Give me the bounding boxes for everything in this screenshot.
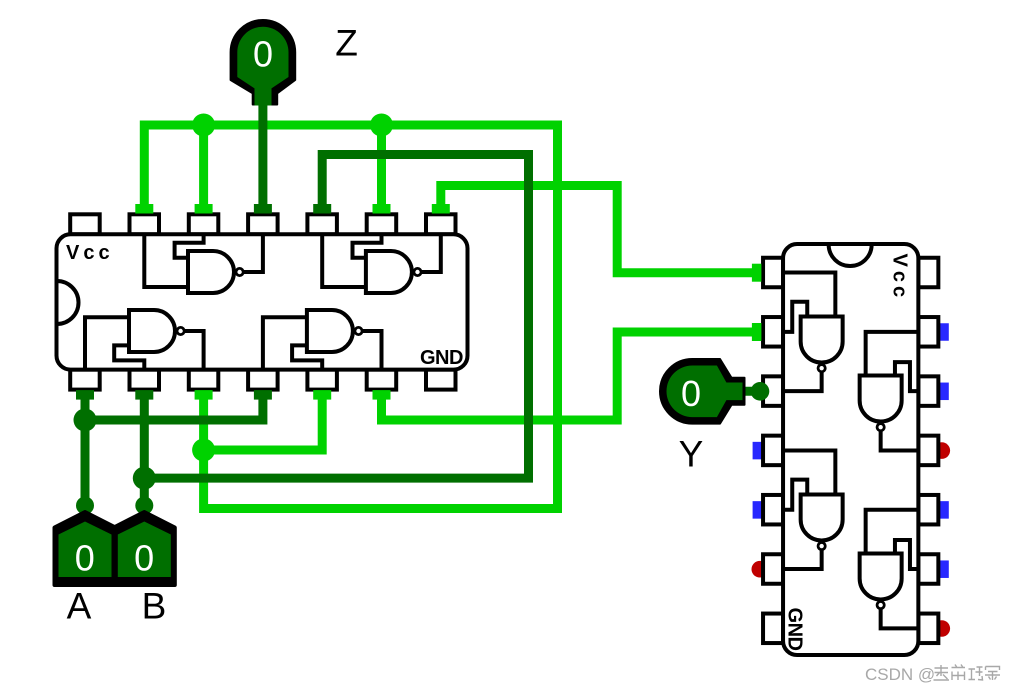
junction net1 at pin9 column: [370, 114, 393, 137]
svg-text:0: 0: [253, 33, 273, 74]
gate U1B input wire from pin 5: [292, 345, 322, 369]
junction net1 at pin3 column: [192, 439, 215, 462]
gate U1C NAND body: [366, 251, 412, 293]
gate U1A bubble: [177, 327, 184, 334]
U2 port R4 error indicator: [934, 442, 951, 459]
junction net B: [133, 467, 156, 490]
IC U2 7400 quad NAND (vertical DIP-14, rotated copy): [763, 244, 938, 655]
gate U1C bubble: [414, 268, 421, 275]
wire net1 branch to pin 5: [204, 392, 323, 450]
input A shield inner fill: [59, 522, 112, 578]
gate U1A NAND body: [129, 310, 175, 352]
stub pin 10: [313, 204, 331, 214]
input B shield: [114, 512, 175, 585]
U1 pin 6 box: [367, 370, 397, 390]
gate U1A input wire from pin 1: [85, 317, 129, 369]
junction net1 at pin12 column: [192, 114, 215, 137]
wire net B to pin 2: [140, 392, 149, 506]
U1 pin 13 box: [130, 214, 160, 234]
stub pin 2: [135, 390, 153, 400]
node dot at input A apex: [76, 497, 94, 515]
U2 port R3 floating indicator: [940, 383, 949, 401]
gate U1A output wire to pin 3: [184, 331, 204, 370]
U1 pin 5 box: [307, 370, 337, 390]
stub pin 4: [254, 390, 272, 400]
U1 pin 4 box: [248, 370, 278, 390]
U2 port R7 error indicator: [934, 620, 951, 637]
stub pin 8: [432, 204, 450, 214]
U1 notch: [57, 281, 79, 324]
U1 body: [57, 234, 468, 369]
U1 pin 12 box: [189, 214, 219, 234]
stub pin 13: [135, 204, 153, 214]
U1 pin 3 box: [189, 370, 219, 390]
wire net B branch to pin 10: [144, 155, 528, 479]
input B shield inner fill: [118, 522, 171, 578]
gate U1C output wire to pin 8: [421, 234, 441, 272]
output Y shield: [660, 359, 745, 424]
output Y shield inner fill: [667, 366, 743, 418]
U1 pin 11 box: [248, 214, 278, 234]
gate U1D NAND body: [188, 251, 234, 293]
U1 pin 2 box: [130, 370, 160, 390]
stub pin 1: [76, 390, 94, 400]
wire net A branch to pin 4: [85, 392, 263, 420]
wire net Y output to U2 L3: [738, 387, 758, 396]
wire net A to pin 1: [81, 392, 90, 506]
output Z shield: [231, 20, 296, 105]
U1 pin 8 box: [426, 214, 456, 234]
gate U1B bubble: [355, 327, 362, 334]
U2 port L4 floating indicator: [753, 442, 762, 460]
gate U1B input wire from pin 4: [263, 317, 307, 369]
stub pin 5: [313, 390, 331, 400]
stub pin 6: [373, 390, 391, 400]
svg-text:0: 0: [75, 538, 95, 579]
wire net Z output to pin 11: [258, 97, 267, 208]
U2 port L5 floating indicator: [753, 501, 762, 519]
U1 pin 1 box: [70, 370, 100, 390]
svg-text:B: B: [142, 586, 167, 627]
U2 port R5 floating indicator: [940, 501, 949, 519]
U2 port R6 floating indicator: [940, 560, 949, 578]
gate U1D bubble: [236, 268, 243, 275]
svg-text:0: 0: [134, 538, 154, 579]
stub pin 3: [195, 390, 213, 400]
U1 pin 7 (GND) box: [426, 370, 456, 390]
svg-text:CSDN @: CSDN @: [865, 665, 935, 684]
stub U2 L2: [752, 323, 762, 341]
IC U1 7400 quad NAND (horizontal DIP-14): [57, 214, 468, 389]
wire net1 branch to pin 12: [199, 125, 208, 208]
gate U1C input wire from pin 9: [353, 234, 382, 257]
node dot at input B apex: [135, 497, 153, 515]
gate U1B output wire to pin 6: [362, 331, 382, 370]
input A shield: [55, 512, 116, 585]
stub pin 11: [254, 204, 272, 214]
gate U1C input wire from pin 10: [322, 234, 366, 287]
wire net1 branch to pin 9: [377, 125, 386, 208]
wire net2 pin8 to U2 L1: [441, 186, 757, 273]
output Z shield inner fill: [237, 27, 288, 106]
svg-text:Vcc: Vcc: [66, 242, 114, 264]
stub pin 9: [373, 204, 391, 214]
U2 port L6 error indicator: [752, 561, 769, 578]
junction net A: [74, 409, 97, 432]
gate U1D output wire to pin 11: [243, 234, 263, 272]
stub pin 12: [195, 204, 213, 214]
gate U1D input wire from pin 13: [144, 234, 188, 287]
U1 pin 14 (Vcc) box: [70, 214, 100, 234]
stub U2 L3 port dot: [751, 382, 770, 401]
gate U1B NAND body: [307, 310, 353, 352]
stub U2 L1: [752, 264, 762, 282]
wire net3 pin6 to U2 L2: [382, 332, 758, 420]
svg-text:Z: Z: [335, 23, 358, 64]
svg-text:A: A: [67, 586, 92, 627]
svg-text:GND: GND: [420, 347, 463, 369]
svg-text:0: 0: [681, 373, 701, 414]
U2 port R2 floating indicator: [940, 323, 949, 341]
wire net1 main run pin13-top-right-bottom-pin3: [144, 125, 557, 509]
svg-text:Y: Y: [679, 434, 704, 475]
U1 pin 9 box: [367, 214, 397, 234]
gate U1A input wire from pin 2: [114, 345, 144, 369]
U1 pin 10 box: [307, 214, 337, 234]
gate U1D input wire from pin 12: [175, 234, 204, 257]
